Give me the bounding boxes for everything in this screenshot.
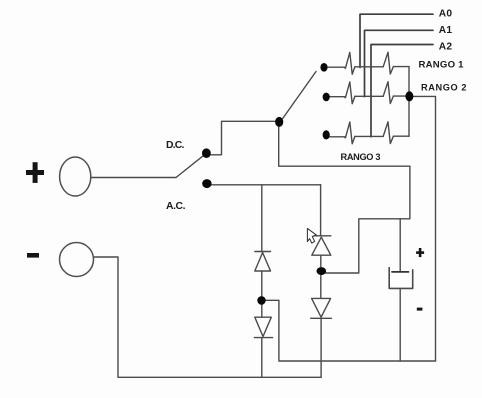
wire AC net [212, 184, 321, 186]
wire junction to D2 [261, 304, 263, 317]
svg-text:A0: A0 [439, 8, 453, 19]
minus input symbol [27, 253, 39, 258]
node row1 dot [320, 63, 327, 72]
wire A1 [365, 30, 434, 96]
wire A0 [360, 14, 433, 67]
wire left junction to bottom rail [266, 300, 436, 361]
diode D1 cathode bar [255, 251, 271, 253]
mouse cursor [307, 228, 316, 243]
wire plus terminal [91, 177, 176, 179]
wire row1 left [327, 66, 344, 68]
resistor RANGO2 left [344, 82, 355, 104]
node row2 dot [323, 93, 330, 102]
svg-text:A1: A1 [439, 25, 453, 36]
resistor RANGO1 right [383, 52, 393, 74]
wire row1 right [393, 66, 409, 68]
node AC contact dot [202, 179, 211, 188]
wire D1 to junction [261, 271, 263, 296]
wire row1 mid [355, 66, 383, 68]
node left diode junction dot [257, 296, 265, 305]
wire D3 to junction [320, 255, 322, 267]
wire right bus [408, 67, 410, 137]
wire DC contact out [211, 121, 276, 155]
plus input symbol [26, 170, 44, 175]
resistor RANGO1 left [344, 52, 355, 74]
wire A2 [371, 45, 433, 137]
diode D4 triangle [312, 298, 331, 317]
node row3 dot [323, 130, 330, 139]
wire junction to D4 [320, 276, 322, 299]
terminal circle plus [60, 157, 91, 196]
wire row2 right [393, 95, 405, 97]
capacitor plus label [416, 251, 424, 254]
node right diode junction dot [317, 267, 327, 275]
wire D4 to minus rail [320, 318, 322, 377]
diode D3 triangle [312, 237, 331, 255]
wire D2 to minus rail [261, 338, 263, 378]
resistor RANGO2 right [383, 82, 393, 104]
wire left diode branch top [261, 185, 263, 252]
svg-text:A.C.: A.C. [166, 201, 186, 212]
wire right diode branch top [320, 185, 322, 236]
wire switch lever lower [176, 155, 204, 177]
node RANGO2 bus dot [405, 91, 413, 101]
wire row2 mid [355, 95, 383, 97]
wire minus terminal [93, 257, 321, 377]
svg-text:D.C.: D.C. [166, 140, 185, 151]
wire switch lever upper [283, 72, 316, 119]
capacitor minus label [417, 308, 423, 311]
wire DC net stepped [279, 127, 410, 274]
capacitor C1 cup plate [389, 268, 413, 289]
wire capacitor top feed [399, 219, 401, 271]
terminal circle minus [60, 243, 94, 277]
capacitor C1 top plate [392, 271, 409, 273]
node switch pivot dot [275, 117, 283, 127]
wire row3 right [393, 135, 409, 137]
diode D1 triangle [255, 253, 271, 271]
wire row3 mid [355, 135, 383, 137]
resistor RANGO3 right [383, 122, 393, 144]
svg-text:A2: A2 [439, 42, 453, 53]
diode D3 cathode bar [313, 235, 331, 237]
capacitor C1 bottom wire [399, 288, 401, 361]
svg-text:RANGO 1: RANGO 1 [419, 59, 465, 70]
svg-text:RANGO 3: RANGO 3 [341, 152, 381, 162]
wire RANGO2 output [414, 96, 436, 361]
node DC contact dot [202, 148, 211, 158]
resistor RANGO3 left [344, 122, 355, 144]
svg-text:RANGO 2: RANGO 2 [421, 83, 467, 93]
diode D4 cathode bar [311, 317, 332, 319]
diode D2 triangle [255, 317, 271, 336]
wire row3 left [329, 136, 344, 138]
diode D2 cathode bar [254, 337, 272, 339]
wire row2 left [329, 96, 344, 98]
